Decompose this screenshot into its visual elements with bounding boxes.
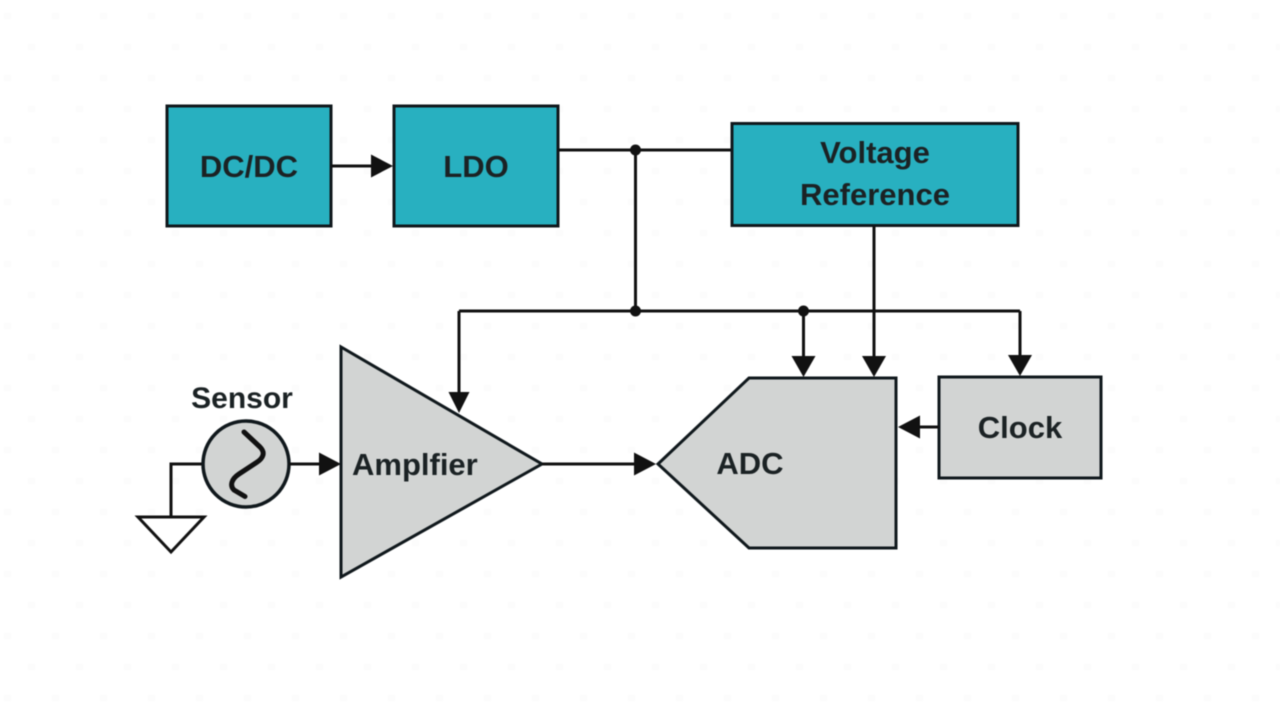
svg-text:Amplfier: Amplfier [352,447,478,482]
node junction at LDO output [630,145,641,156]
svg-text:DC/DC: DC/DC [200,149,298,184]
wire Voltage Reference to ADC with down arrowhead [862,226,886,377]
node junction bus left [630,306,641,317]
node junction bus right [798,306,809,317]
wire sensor to amplifier with arrowhead [289,453,341,476]
svg-text:LDO: LDO [443,149,508,184]
ground [138,517,204,552]
sensor source circle [203,421,289,507]
block Clock [939,377,1101,478]
wire bus to Clock with down arrowhead [1008,311,1032,376]
bus wire horizontal [459,310,1020,313]
wire amplifier to ADC with arrowhead [542,453,656,476]
svg-text:Sensor: Sensor [191,382,293,415]
block LDO [394,106,558,226]
ADC [658,378,896,548]
svg-text:Clock: Clock [978,410,1063,445]
svg-text:ADC: ADC [716,446,783,481]
wire vertical from LDO node down to bus [634,150,637,311]
wire Clock to ADC with left arrowhead [898,416,939,439]
amplifier [341,347,542,577]
wire DC/DC to LDO with arrowhead [331,155,393,178]
wire bus to amplifier with down arrowhead [449,311,470,413]
wire bus to ADC with down arrowhead [792,311,816,377]
block Voltage Reference [732,124,1018,226]
wire sensor to ground [171,464,203,517]
block DC/DC [167,106,331,226]
wire LDO to Voltage Reference [558,149,732,152]
svg-text:Voltage: Voltage [820,135,930,170]
svg-text:Reference: Reference [800,177,950,212]
